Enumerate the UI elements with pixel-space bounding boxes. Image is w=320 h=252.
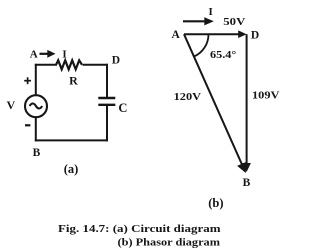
svg-text:(b): (b) xyxy=(208,196,223,210)
svg-text:V: V xyxy=(6,98,15,112)
svg-text:C: C xyxy=(118,101,127,115)
wire top right segment xyxy=(83,64,109,66)
svg-text:Fig. 14.7: (a) Circuit diagram: Fig. 14.7: (a) Circuit diagram xyxy=(58,224,221,235)
resistor R xyxy=(56,60,82,69)
phasor vector D to B (109V) xyxy=(242,34,251,172)
phasor current arrow xyxy=(183,17,214,25)
svg-text:50V: 50V xyxy=(223,16,245,28)
svg-text:I: I xyxy=(62,48,66,60)
ac source sine symbol xyxy=(30,104,43,109)
capacitor C xyxy=(98,98,115,105)
polarity minus xyxy=(25,124,30,126)
wire left upper xyxy=(35,64,37,96)
svg-text:B: B xyxy=(243,177,251,189)
wire bottom xyxy=(35,139,108,141)
polarity plus xyxy=(24,77,31,84)
svg-text:120V: 120V xyxy=(174,91,202,103)
angle arc xyxy=(194,34,209,56)
svg-text:(a): (a) xyxy=(64,162,79,176)
svg-text:A: A xyxy=(171,29,180,41)
svg-text:65.4°: 65.4° xyxy=(210,49,236,61)
svg-text:(b) Phasor diagram: (b) Phasor diagram xyxy=(118,238,221,249)
svg-text:A: A xyxy=(30,49,38,61)
wire right lower xyxy=(106,105,108,142)
current arrow I xyxy=(40,50,56,58)
wire top left segment xyxy=(35,64,57,66)
wire right upper xyxy=(106,64,108,98)
svg-text:D: D xyxy=(251,30,259,42)
svg-text:B: B xyxy=(33,147,41,159)
phasor vector A to D xyxy=(184,30,247,38)
ac source circle xyxy=(25,95,47,117)
svg-text:109V: 109V xyxy=(252,90,280,102)
wire left lower xyxy=(35,117,37,141)
svg-text:R: R xyxy=(69,74,78,88)
phasor vector A to B (120V) xyxy=(184,34,246,173)
svg-text:I: I xyxy=(209,6,213,18)
svg-text:D: D xyxy=(112,55,120,67)
